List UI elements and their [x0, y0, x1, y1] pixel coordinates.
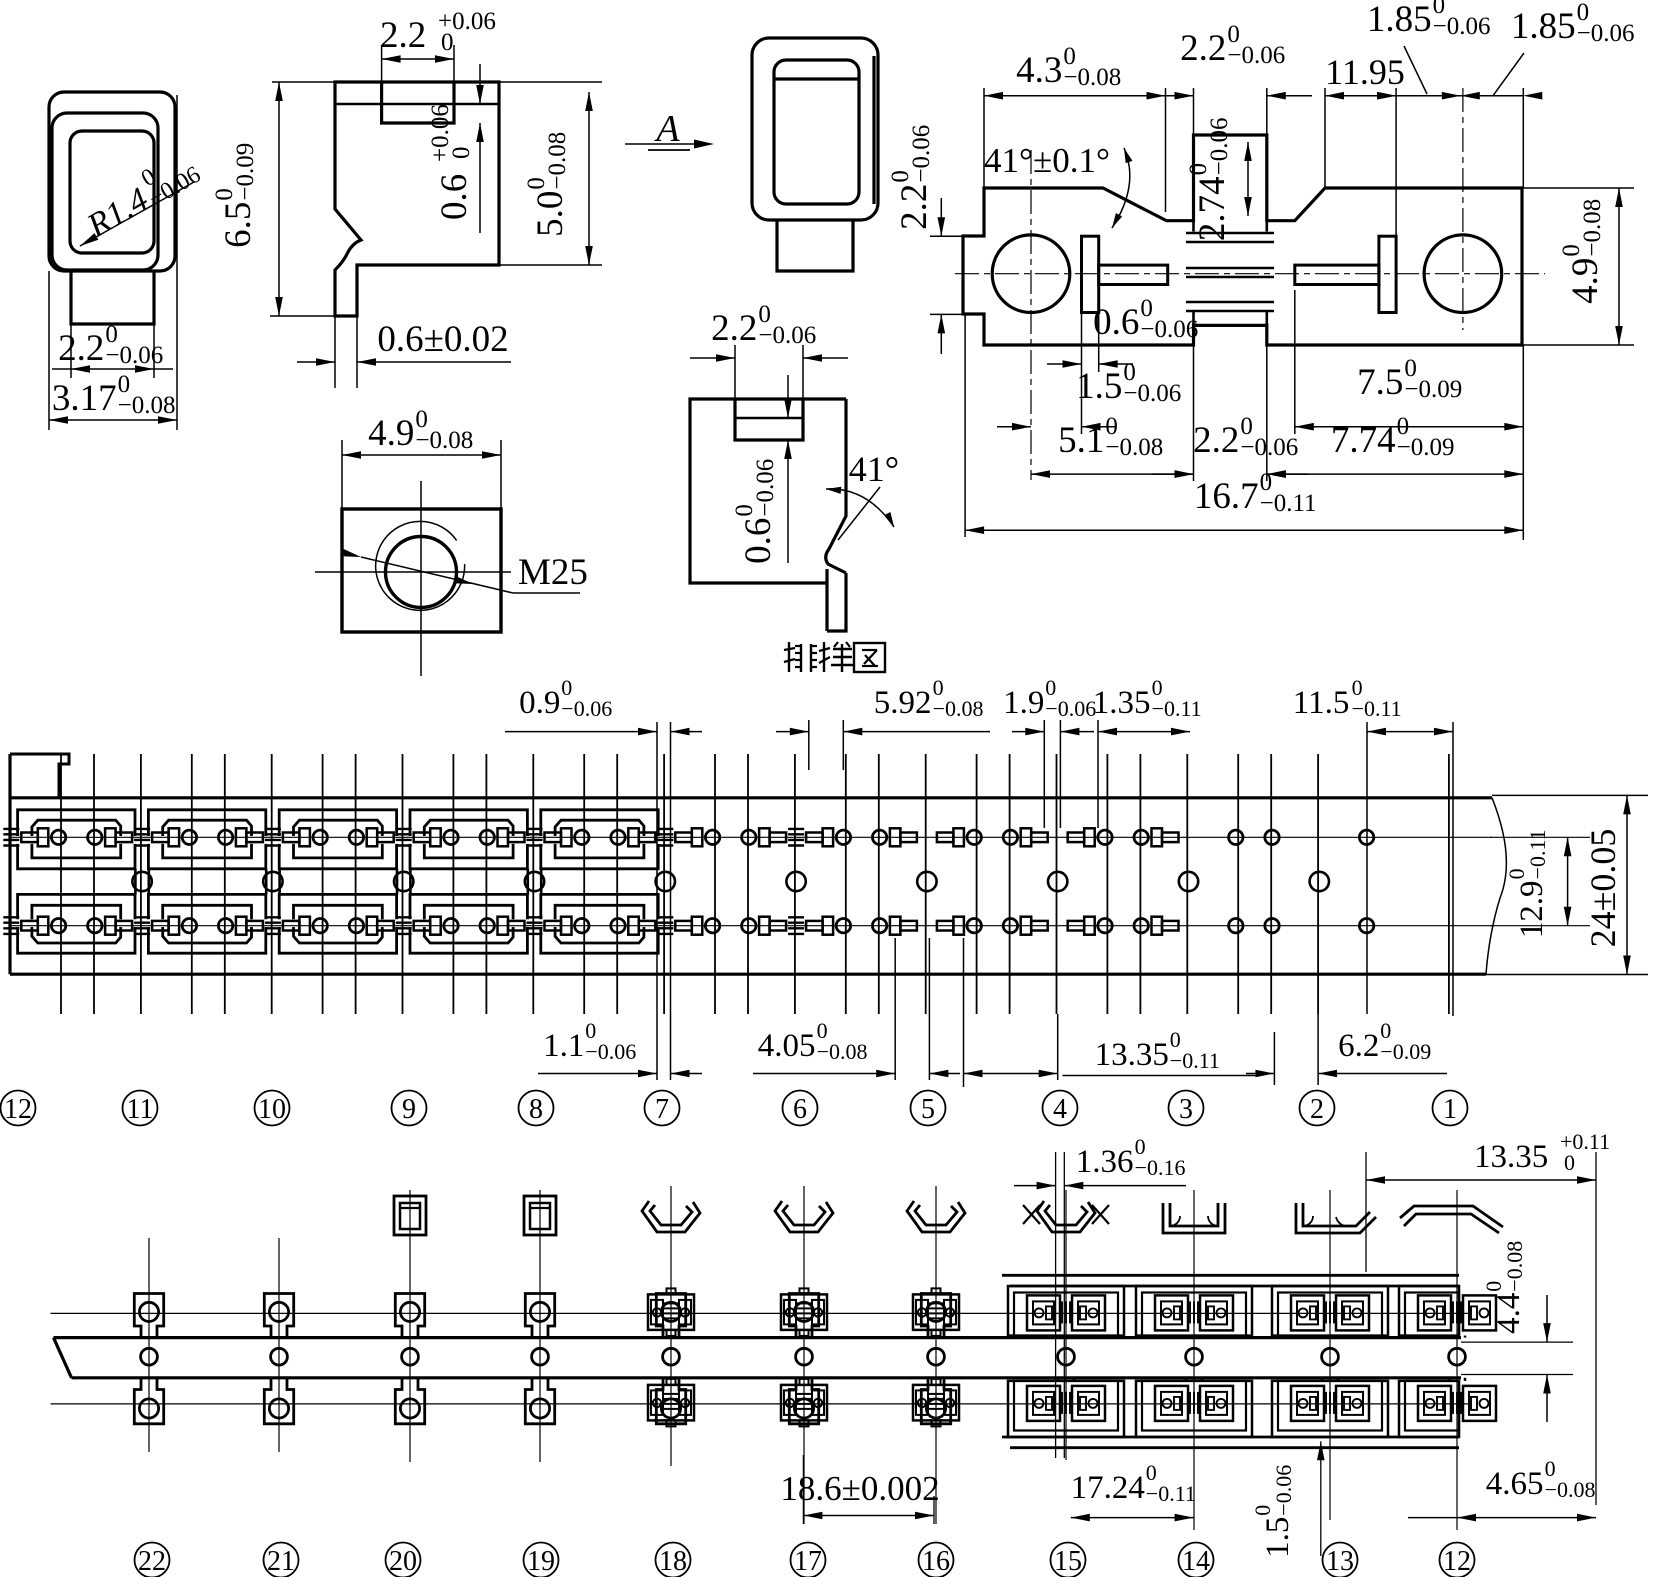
- svg-text:−0.08: −0.08: [1579, 199, 1606, 257]
- strip2 part symbol station 14: [1163, 1203, 1225, 1233]
- viewA direction arrow: [625, 143, 700, 145]
- view4 dim 2.2 arrows: [716, 354, 735, 362]
- strip1 dim 5.92 ext lines: [808, 720, 810, 770]
- view5 dim 2.2 top ext lines: [1193, 88, 1195, 135]
- strip2 centerline station 12: [1456, 1190, 1458, 1530]
- svg-text:−0.11: −0.11: [1352, 696, 1402, 721]
- strip2 centerline station 18: [670, 1186, 672, 1466]
- svg-text:−0.11: −0.11: [1146, 1481, 1196, 1506]
- strip1 blank outline bottom station 10: [279, 927, 396, 953]
- strip1 top edge extension: [1492, 794, 1648, 796]
- strip2 frame bottom station 13: [1272, 1381, 1388, 1437]
- view2 top extension line: [272, 81, 602, 83]
- svg-text:22: 22: [138, 1546, 166, 1577]
- view1 middle curl outline: [52, 113, 158, 270]
- view5 dim 1.5 arrows: [997, 426, 1031, 428]
- svg-text:16.7: 16.7: [1194, 476, 1259, 517]
- strip2 station number 21: [264, 1543, 299, 1577]
- svg-text:5.0: 5.0: [530, 191, 571, 237]
- view1 dim 2.2 ext lines: [70, 324, 72, 378]
- svg-text:0: 0: [441, 29, 454, 56]
- svg-text:6.5: 6.5: [218, 202, 259, 248]
- svg-text:−0.06: −0.06: [1206, 118, 1233, 176]
- strip1 row ext right bottom: [1490, 925, 1590, 927]
- svg-text:0.6: 0.6: [1093, 302, 1139, 343]
- view4 slot seam: [735, 417, 803, 419]
- svg-text:−0.08: −0.08: [933, 696, 984, 721]
- svg-text:11: 11: [127, 1094, 154, 1125]
- view2 dim 2.2+0.06 ext lines: [381, 45, 383, 82]
- strip1 top edge: [10, 796, 1492, 799]
- view5 left hole centerline: [1030, 150, 1032, 480]
- svg-text:8: 8: [529, 1094, 543, 1125]
- view5 dim 2.2 left ext lines: [930, 235, 963, 237]
- strip1 blank outline bottom station 8: [541, 927, 658, 953]
- view5 dim 4.3 ext lines: [983, 88, 985, 188]
- strip1 blank outline bottom station 9: [410, 927, 527, 953]
- svg-text:1.5: 1.5: [1260, 1517, 1296, 1558]
- svg-text:0.6±0.02: 0.6±0.02: [377, 319, 508, 360]
- view5 dim 1.85a arrows: [1377, 92, 1396, 100]
- strip2 dim 1.5 rotated text: [1250, 1465, 1296, 1558]
- svg-text:3.17: 3.17: [52, 378, 117, 419]
- view2 part outline: [335, 82, 499, 316]
- strip2 station number 14: [1179, 1543, 1214, 1577]
- strip2 frame top station 12: [1399, 1286, 1459, 1336]
- strip1 bottom edge extension: [1486, 974, 1648, 976]
- svg-text:5.92: 5.92: [874, 685, 932, 721]
- topview right fold line: [872, 56, 875, 204]
- view2 dim 5.0 arrow line: [588, 92, 590, 265]
- svg-text:−0.06: −0.06: [1045, 696, 1096, 721]
- strip2 neck station 15: [1057, 1336, 1060, 1338]
- view5 center break lines: [1186, 232, 1274, 234]
- strip2 frame top station 15: [1008, 1286, 1124, 1336]
- svg-text:−0.06: −0.06: [1433, 13, 1491, 40]
- strip1 features station 10 bottom: [218, 919, 232, 933]
- view5 dim 11.95 arrow line: [1325, 95, 1396, 97]
- view5 right bar: [1379, 236, 1396, 312]
- view2 top slot: [382, 82, 454, 123]
- view1 R1.4 leader arrowhead: [80, 233, 98, 246]
- svg-text:13.35: 13.35: [1095, 1037, 1169, 1073]
- strip2 station number 19: [524, 1543, 559, 1577]
- strip1 features station 8 top: [480, 830, 494, 844]
- strip2 complex pads station 14: [1155, 1295, 1188, 1330]
- strip1 station number 4: [1043, 1091, 1078, 1126]
- strip2 dim 4.4 rotated text: [1481, 1241, 1527, 1334]
- view5 dim 41deg arc: [1112, 148, 1130, 228]
- view3 vertical centerline: [420, 481, 422, 676]
- view1 dim 2.2 arrows: [71, 365, 90, 373]
- svg-text:1: 1: [1443, 1094, 1457, 1125]
- strip2 upper row centerline: [51, 1312, 1471, 1314]
- svg-text:13.35: 13.35: [1474, 1139, 1548, 1175]
- view5 dim 2.74 rotated text: [1185, 118, 1233, 242]
- strip2 station number 12: [1440, 1543, 1475, 1577]
- strip2 station number 18: [656, 1543, 691, 1577]
- strip2 centerline station 16: [935, 1186, 937, 1524]
- strip2 dogbone station 19: [525, 1294, 554, 1338]
- view5 dim 11.95 ext lines: [1324, 88, 1326, 188]
- strip1 left-end tab: [10, 754, 69, 798]
- view2 dim 0.6 rotated text: [427, 104, 475, 220]
- svg-text:7.74: 7.74: [1331, 420, 1396, 461]
- svg-text:7.5: 7.5: [1357, 362, 1403, 403]
- strip2 part symbol station 17: [775, 1201, 833, 1232]
- view4 dim 2.2 ext lines: [734, 345, 736, 399]
- view3 thread outer arc: [376, 521, 465, 610]
- strip1 features station 2 top: [1265, 830, 1279, 844]
- view5 dim 4.3 arrow line: [984, 95, 1166, 97]
- view5 dim 4.9 right arrows: [1615, 188, 1623, 207]
- strip1 dim 12.9 arrow line: [1567, 837, 1569, 925]
- svg-text:1.9: 1.9: [1003, 685, 1044, 721]
- strip1 dim 5.92 arrows: [776, 731, 809, 733]
- view5 dim 4.9 right ext lines: [1522, 187, 1634, 189]
- view5 dim 2.74 arrow: [1247, 142, 1249, 216]
- view5 dim 2.2 top arrow line: [1148, 95, 1194, 97]
- view5 dim 2.2 bottom ext line: [1266, 345, 1268, 481]
- strip1 pilot neck station 9: [396, 869, 399, 895]
- view5 dim 1.85b leader: [1493, 53, 1524, 96]
- strip2 lower row centerline: [51, 1403, 1471, 1405]
- strip1 station number 8: [519, 1091, 554, 1126]
- strip2 centerline station 22: [148, 1238, 150, 1452]
- strip2 centerline station 21: [278, 1238, 280, 1452]
- strip2 complex pads station 13: [1291, 1295, 1324, 1330]
- view5 dim 1.85b arrows: [1442, 92, 1461, 100]
- svg-text:4.9: 4.9: [368, 413, 414, 454]
- strip1 pilot hole station 8: [525, 872, 544, 891]
- svg-text:12: 12: [4, 1094, 32, 1125]
- view2 dim 2.2+0.06 arrows: [382, 55, 401, 63]
- strip2 complex pads station 12: [1418, 1295, 1451, 1330]
- view5 dim 7.74 arrow line: [1267, 473, 1524, 475]
- strip2 dim 13.35b ext lines: [1365, 1152, 1367, 1272]
- strip2 dim 17.24 arrow line: [1071, 1517, 1194, 1519]
- strip2 neck station 14: [1185, 1336, 1188, 1338]
- svg-text:1.85: 1.85: [1367, 0, 1432, 40]
- svg-text:9: 9: [402, 1094, 416, 1125]
- strip2 complex pads station 16: [913, 1294, 959, 1330]
- strip1 blank outline top station 9: [410, 810, 527, 836]
- svg-text:1.5: 1.5: [1076, 366, 1122, 407]
- view3 M25 leader: [361, 557, 513, 593]
- view4 41deg arc: [826, 489, 894, 527]
- view3 horizontal centerline: [315, 571, 511, 573]
- view5 dim 2.2 bottom arrows: [1152, 473, 1194, 475]
- view5 dim 2.2 left rotated text: [887, 125, 935, 230]
- strip1 station number 9: [392, 1091, 427, 1126]
- svg-text:7: 7: [655, 1094, 669, 1125]
- viewA underline: [648, 149, 690, 151]
- view1 dim 2.2 arrow line: [52, 368, 173, 370]
- view5 dim 16.7 ext line: [964, 314, 966, 537]
- view4 dim 0.6 upper arrow: [787, 375, 789, 418]
- topview outer outline: [752, 38, 878, 220]
- strip2 frame bottom station 12: [1399, 1381, 1459, 1437]
- view1 bottom tab: [71, 271, 154, 324]
- view5 dim 4.9 right rotated text: [1558, 199, 1606, 304]
- svg-text:11.5: 11.5: [1293, 685, 1350, 721]
- strip2 dogbone station 20: [395, 1294, 424, 1338]
- svg-text:5: 5: [921, 1094, 935, 1125]
- svg-text:0: 0: [448, 147, 475, 160]
- strip1 blank outline bottom station 11: [148, 927, 265, 953]
- strip1 gridline station1: [1366, 722, 1368, 1014]
- strip1 features station 7 top: [611, 830, 625, 844]
- strip2 mid hole station 12: [1449, 1348, 1466, 1365]
- svg-text:−0.11: −0.11: [1260, 490, 1317, 517]
- strip1 features station 11 bottom: [88, 919, 102, 933]
- view5 dim 7.5 ext lines: [1294, 290, 1296, 434]
- strip1 bottom row centerline: [10, 925, 1492, 927]
- svg-text:4.05: 4.05: [758, 1028, 816, 1064]
- strip1 station number 2: [1300, 1091, 1335, 1126]
- view2 dim 2.2+0.06 arrow line: [382, 58, 454, 60]
- strip2 frame top station 14: [1136, 1286, 1252, 1336]
- strip1 pilot hole station 7: [656, 872, 675, 891]
- view5 dim 5.1 ext line: [1193, 345, 1195, 481]
- strip2 right rail bottom a: [1002, 1436, 1459, 1439]
- strip1 features station 7 bottom: [611, 919, 625, 933]
- strip1 dim 1.9 ext lines: [1043, 720, 1045, 828]
- svg-text:2.2: 2.2: [894, 184, 935, 230]
- strip1 left edge: [8, 754, 11, 974]
- strip2 station number 15: [1051, 1543, 1086, 1577]
- strip2 neck station 12: [1448, 1336, 1451, 1338]
- view5 horizontal centerline: [955, 273, 1545, 275]
- svg-text:18.6±0.002: 18.6±0.002: [780, 1469, 939, 1508]
- strip2 dim 1.36 arrows: [1014, 1185, 1056, 1187]
- strip1 pilot hole station 9: [394, 872, 413, 891]
- svg-text:2.2: 2.2: [1193, 420, 1239, 461]
- svg-text:−0.11: −0.11: [1170, 1048, 1220, 1073]
- strip2 station number 13: [1323, 1543, 1358, 1577]
- view4 leg: [827, 569, 846, 631]
- strip2 dim 4.4 ext lines: [1461, 1341, 1573, 1343]
- svg-text:2.74: 2.74: [1192, 176, 1233, 241]
- svg-text:17.24: 17.24: [1071, 1470, 1145, 1506]
- svg-text:41°±0.1°: 41°±0.1°: [984, 141, 1110, 180]
- view2 material seam line: [335, 103, 499, 105]
- strip2 carrier bottom edge: [72, 1376, 1462, 1379]
- strip1 row ext right top: [1490, 836, 1590, 838]
- view1 dim 3.17 arrows: [49, 416, 68, 424]
- svg-text:1.85: 1.85: [1511, 6, 1576, 47]
- svg-text:4: 4: [1053, 1094, 1067, 1125]
- strip1 dim 6.2 ext lines: [1273, 1032, 1275, 1085]
- view1 dim 3.17 ext lines: [48, 271, 50, 430]
- view5 dim 4.9 right arrow line: [1618, 188, 1620, 345]
- strip1 features station 2 bottom: [1265, 919, 1279, 933]
- view5 dim 5.1 arrow line: [1031, 473, 1194, 475]
- strip1 blank outline top station 11: [148, 810, 265, 836]
- strip1 blank outline top station 12: [18, 810, 135, 836]
- strip1 dim 0.9 arrows: [505, 731, 657, 733]
- view4 slot: [735, 399, 803, 440]
- strip2 part symbol station 16: [907, 1201, 965, 1232]
- strip1 pilot neck station 8: [526, 869, 529, 895]
- strip1 station number 10: [255, 1091, 290, 1126]
- strip2 station number 17: [791, 1543, 826, 1577]
- view1 outer curl outline: [49, 92, 175, 271]
- strip2 dogbone station 21: [264, 1294, 293, 1338]
- strip1 dim 12.9 rotated text: [1504, 829, 1550, 938]
- svg-text:−0.08: −0.08: [118, 392, 176, 419]
- strip2 centerline station 17: [803, 1186, 805, 1524]
- svg-text:13: 13: [1326, 1546, 1354, 1577]
- strip1 gridline right end: [1452, 722, 1454, 1016]
- svg-text:−0.06: −0.06: [908, 125, 935, 183]
- svg-text:2.2: 2.2: [380, 15, 426, 56]
- strip1 station number 5: [911, 1091, 946, 1126]
- svg-text:15: 15: [1054, 1546, 1082, 1577]
- strip1 pilot hole station 10: [263, 872, 282, 891]
- svg-text:−0.09: −0.09: [1404, 376, 1462, 403]
- strip2 part symbol station 13: [1296, 1203, 1376, 1233]
- svg-text:6.2: 6.2: [1338, 1028, 1379, 1064]
- strip2 part symbol station 19: [524, 1196, 556, 1235]
- view5 right hole: [1424, 235, 1502, 313]
- strip2 dogbone station 18: [656, 1294, 685, 1338]
- strip2 frame top station 13: [1272, 1286, 1388, 1336]
- strip1 features station 12 bottom: [3, 916, 19, 918]
- view2 dim 5.0 arrows: [585, 92, 593, 111]
- view4 dim 0.6 rotated text: [731, 459, 779, 564]
- strip2 centerline station 13: [1329, 1190, 1331, 1520]
- svg-text:−0.08: −0.08: [1063, 64, 1121, 91]
- strip2 complex pads station 17: [781, 1294, 827, 1330]
- svg-text:4.4: 4.4: [1491, 1293, 1527, 1334]
- svg-text:0.6: 0.6: [738, 518, 779, 564]
- strip1 dim 1.35 ext line: [1097, 720, 1099, 828]
- strip2 dim 18.6 ext lines: [802, 1455, 804, 1524]
- view2 dim 0.6 lower arrow: [479, 123, 481, 233]
- svg-text:6: 6: [793, 1094, 807, 1125]
- view1 R1.4 leader line: [80, 182, 194, 246]
- svg-text:−0.08: −0.08: [544, 132, 571, 190]
- strip2 dogbone station 16: [921, 1294, 950, 1338]
- view2 dim 0.6pm ext lines: [334, 316, 336, 388]
- strip1 dim 11.5 arrow line: [1367, 731, 1453, 733]
- strip1 features station 9 bottom: [349, 919, 363, 933]
- svg-text:5.1: 5.1: [1058, 420, 1104, 461]
- svg-text:−0.06: −0.06: [1577, 20, 1635, 47]
- strip1 features station 5 top: [872, 830, 886, 844]
- svg-text:−0.06: −0.06: [1140, 316, 1198, 343]
- svg-text:10: 10: [258, 1094, 286, 1125]
- strip2 part symbol station 18: [642, 1201, 700, 1232]
- svg-text:−0.11: −0.11: [1152, 696, 1202, 721]
- view5 right pin: [1295, 265, 1379, 284]
- view4 outline: [690, 399, 846, 583]
- svg-text:−0.06: −0.06: [752, 459, 779, 517]
- strip1 chain dim line: [964, 1073, 1058, 1075]
- svg-text:2.2: 2.2: [711, 308, 757, 349]
- strip2 part symbol station 15: [1037, 1201, 1095, 1232]
- strip2 part symbol station 20: [394, 1196, 426, 1235]
- svg-text:−0.06: −0.06: [1123, 380, 1181, 407]
- view1 R1.4 label: [76, 144, 205, 247]
- strip2 neck station 13: [1321, 1336, 1324, 1338]
- svg-text:4.65: 4.65: [1486, 1466, 1544, 1502]
- strip2 frame bottom station 15: [1008, 1381, 1124, 1437]
- strip2 dim 13.35b arrow line: [1366, 1179, 1596, 1181]
- view3 M25 leader arrows: [342, 549, 361, 557]
- strip2 complex pads station 15: [1027, 1295, 1060, 1330]
- view4 dim 0.6 lower arrow: [787, 440, 789, 563]
- strip1 pilot neck station 10: [265, 869, 268, 895]
- strip1 features station 4 bottom: [1003, 919, 1017, 933]
- strip2 right rail bottom b: [1010, 1446, 1459, 1449]
- view2 dim 0.6pm arrow line: [297, 361, 335, 363]
- view3 dim 4.9 arrow line: [342, 454, 501, 456]
- svg-text:4.9: 4.9: [1565, 258, 1606, 304]
- strip1 punch twin lines at station7: [656, 722, 658, 1080]
- strip2 station number 20: [386, 1543, 421, 1577]
- svg-text:14: 14: [1182, 1546, 1210, 1577]
- strip2 frame bottom station 14: [1136, 1381, 1252, 1437]
- view2 dim 6.5 rotated text: [211, 143, 259, 248]
- view5 left pin: [1099, 265, 1168, 284]
- strip1 station number 6: [783, 1091, 818, 1126]
- strip1 station number 7: [645, 1091, 680, 1126]
- strip1 features station 12 top: [3, 828, 19, 830]
- svg-text:−0.08: −0.08: [817, 1039, 868, 1064]
- svg-text:−0.08: −0.08: [1502, 1241, 1527, 1292]
- strip1 pilot hole station 4: [1048, 872, 1067, 891]
- strip2 dogbone station 22: [134, 1294, 163, 1338]
- strip2 station number 16: [919, 1543, 954, 1577]
- strip2 station number 22: [135, 1543, 170, 1577]
- view2 dim 0.6pm arrows: [316, 358, 335, 366]
- svg-text:3: 3: [1179, 1094, 1193, 1125]
- strip2 centerline station 15: [1065, 1190, 1067, 1460]
- view3 square outline: [342, 509, 501, 632]
- strip1 features station 10 top: [218, 830, 232, 844]
- strip1 pilot hole station 11: [132, 872, 151, 891]
- svg-text:−0.06: −0.06: [561, 696, 612, 721]
- svg-text:M25: M25: [518, 552, 588, 593]
- title paiyangtu: [788, 642, 790, 672]
- svg-text:4.3: 4.3: [1016, 50, 1062, 91]
- svg-text:−0.06: −0.06: [1271, 1465, 1296, 1516]
- svg-text:−0.06: −0.06: [758, 322, 816, 349]
- strip2 punch twin lines station 15: [1055, 1152, 1057, 1458]
- view2 dim 6.5 arrow line: [278, 82, 280, 316]
- svg-text:−0.06: −0.06: [105, 342, 163, 369]
- strip1 dim 1.1 arrows: [538, 1073, 657, 1075]
- strip1 pilot neck station 11: [134, 869, 137, 895]
- view5 dim 11.95 arrows: [1325, 92, 1344, 100]
- view3 dim 4.9 arrows: [342, 451, 361, 459]
- strip2 dogbone station 17: [789, 1294, 818, 1338]
- strip1 station number 12: [1, 1091, 36, 1126]
- strip1 station number 1: [1433, 1091, 1468, 1126]
- svg-text:18: 18: [659, 1546, 687, 1577]
- svg-text:0: 0: [1564, 1150, 1575, 1175]
- svg-text:−0.08: −0.08: [415, 427, 473, 454]
- view5 dim 1.85a leader: [1404, 46, 1427, 94]
- strip1 features station 6 bottom: [742, 919, 756, 933]
- view3 dim 4.9 ext lines: [341, 440, 343, 509]
- svg-text:−0.09: −0.09: [1380, 1039, 1431, 1064]
- svg-text:2.2: 2.2: [1180, 28, 1226, 69]
- svg-text:1.36: 1.36: [1076, 1144, 1134, 1180]
- view5 right hole centerline: [1462, 88, 1464, 330]
